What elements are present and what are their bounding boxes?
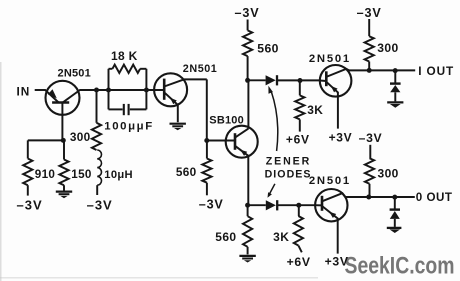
wire Q1 base down: [61, 103, 63, 141]
svg-text:560: 560: [176, 165, 197, 179]
ground under D4: [387, 227, 402, 229]
ground: [56, 191, 72, 193]
svg-text:–3V: –3V: [87, 197, 113, 212]
wire SB100 emitter down: [247, 156, 249, 206]
svg-text:2N501: 2N501: [309, 175, 351, 187]
resistor R8 300 output load 1: [368, 19, 370, 36]
svg-text:–3V: –3V: [359, 131, 383, 145]
wire to zener D5: [248, 204, 266, 206]
wire zener D1 to Q4 base: [277, 79, 320, 81]
node out1 load junction: [367, 68, 372, 73]
transistor Q2 2N501 second stage: [154, 73, 187, 106]
capacitor C1 100uuF: [109, 108, 123, 110]
svg-text:SB100: SB100: [209, 115, 244, 127]
svg-text:+6V: +6V: [287, 255, 311, 269]
svg-text:–3V: –3V: [357, 6, 382, 20]
resistor R6 560 top: [247, 20, 249, 31]
svg-text:3K: 3K: [307, 103, 323, 117]
node out0 diode junction: [392, 195, 397, 200]
resistor R2 150: [63, 140, 65, 159]
svg-text:0 OUT: 0 OUT: [416, 191, 453, 204]
svg-text:3K: 3K: [273, 230, 289, 244]
ground: [170, 123, 186, 125]
node zener bottom left: [245, 203, 250, 208]
wire Q2 collector to SB100 base: [184, 79, 207, 140]
transistor Q3 SB100: [226, 126, 258, 158]
svg-text:910: 910: [35, 168, 56, 181]
svg-text:560: 560: [257, 41, 279, 55]
wire base junction horizontal: [28, 140, 64, 158]
inductor L1 10uH: [97, 150, 101, 185]
ground: [239, 255, 255, 257]
svg-text:2N501: 2N501: [309, 53, 351, 65]
transistor Q4 2N501 output 1: [320, 65, 352, 97]
svg-text:100μμF: 100μμF: [104, 120, 154, 132]
resistor R11 300 output load 0: [369, 145, 371, 158]
svg-text:I OUT: I OUT: [418, 64, 454, 78]
node RC right: [144, 88, 149, 93]
arrow to zener D1: [271, 91, 278, 151]
wire Q2 emitter to ground: [177, 105, 179, 122]
resistor R1 910: [23, 159, 32, 186]
resistor R5 560 base bias: [206, 141, 208, 159]
svg-text:560: 560: [215, 230, 236, 244]
transistor Q1 2N501 input stage: [46, 81, 80, 115]
zener diode D5: [266, 200, 276, 210]
wire to zener D1: [248, 79, 266, 81]
wire output 1 line: [349, 69, 415, 71]
svg-text:300: 300: [378, 167, 399, 181]
svg-text:+3V: +3V: [329, 131, 353, 145]
svg-text:150: 150: [71, 168, 92, 181]
svg-text:300: 300: [70, 130, 91, 144]
zener diode D1: [266, 75, 276, 85]
wire Q1 collector to RC network and Q2 base: [80, 89, 155, 91]
arrow to zener D5: [269, 184, 275, 195]
resistor R7 3K top: [299, 81, 301, 96]
wire zener D5 to Q5 base: [277, 204, 315, 206]
wire RC network left bracket: [108, 69, 110, 110]
wire IN lead: [35, 89, 46, 91]
svg-text:–3V: –3V: [199, 198, 224, 212]
node base junction: [61, 138, 66, 143]
node out0 load junction: [366, 195, 371, 200]
resistor R9 560 bottom: [247, 205, 249, 216]
clamp diode D4: [394, 197, 396, 209]
svg-text:ZENER: ZENER: [266, 155, 311, 167]
wire output 0 line: [345, 196, 415, 198]
ground under D2: [387, 101, 403, 103]
svg-text:–3V: –3V: [17, 197, 43, 212]
svg-text:–3V: –3V: [235, 6, 260, 20]
svg-text:+6V: +6V: [286, 133, 310, 147]
svg-text:+3V: +3V: [325, 255, 349, 269]
node out1 diode junction: [393, 68, 398, 73]
node 3K top junction: [298, 78, 303, 83]
svg-text:10μH: 10μH: [104, 169, 133, 181]
resistor R3 300 collector load: [96, 90, 98, 123]
svg-text:2N501: 2N501: [58, 68, 91, 80]
scan edge: [0, 62, 2, 281]
resistor R4 18K feedback: [109, 68, 113, 70]
wire SB100 collector up: [247, 80, 249, 129]
resistor R10 3K bottom: [298, 205, 300, 216]
node SB100 base junction: [204, 138, 209, 143]
node 3K bottom junction: [296, 203, 301, 208]
svg-text:2N501: 2N501: [183, 63, 218, 75]
clamp diode D2: [394, 71, 396, 83]
svg-text:18 K: 18 K: [111, 49, 138, 63]
wire RC network right bracket: [145, 69, 147, 110]
svg-text:IN: IN: [17, 85, 31, 99]
svg-text:SeekIC.com: SeekIC.com: [345, 253, 455, 280]
node collector junction: [94, 88, 99, 93]
node zener top left: [245, 78, 250, 83]
transistor Q5 2N501 output 0: [315, 189, 347, 221]
svg-text:DIODES: DIODES: [265, 168, 312, 180]
svg-text:300: 300: [377, 41, 398, 55]
